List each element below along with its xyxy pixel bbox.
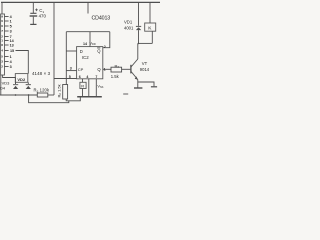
svg-text:4: 4 — [1, 49, 3, 53]
wire pin2 Qbar link — [103, 32, 110, 48]
svg-text:5: 5 — [1, 55, 3, 59]
svg-text:4: 4 — [86, 75, 88, 79]
transistor VT base bar — [130, 65, 132, 74]
svg-text:VD1: VD1 — [124, 19, 133, 24]
svg-text:6: 6 — [1, 24, 3, 28]
svg-text:2: 2 — [104, 45, 106, 49]
svg-text:1: 1 — [10, 55, 12, 59]
svg-text:6: 6 — [79, 75, 81, 79]
wire R6 top vertical to net A — [65, 32, 67, 85]
svg-text:1: 1 — [10, 20, 12, 24]
wire ground bus y95 — [0, 94, 37, 96]
wire relay feed — [149, 2, 151, 23]
svg-text:5: 5 — [69, 75, 71, 79]
svg-text:VDD: VDD — [90, 41, 96, 46]
diode VD4 symbol — [13, 83, 18, 86]
wire relay bottom to junction — [151, 31, 153, 43]
svg-text:9: 9 — [1, 15, 3, 19]
svg-text:R7: R7 — [115, 63, 120, 69]
wire left edge down — [0, 75, 2, 95]
svg-text:2: 2 — [1, 65, 3, 69]
svg-text:1: 1 — [1, 39, 3, 43]
svg-text:0: 0 — [1, 19, 3, 23]
wire emitter vertical to ground — [137, 80, 139, 88]
wire Q pin1 to R7 — [103, 68, 111, 70]
IC2 box CD4013 — [77, 47, 103, 79]
svg-text:4: 4 — [10, 60, 13, 64]
svg-text:R6 1.5k: R6 1.5k — [57, 84, 63, 97]
resistor R6 box vertical — [63, 85, 68, 100]
junction dot collector — [138, 43, 140, 45]
svg-text:4148 × 3: 4148 × 3 — [32, 71, 51, 76]
wire bottom rail — [29, 95, 69, 103]
left IC pin stubs — [5, 16, 9, 18]
ground dash lower — [123, 93, 128, 95]
svg-text:VSS: VSS — [97, 84, 103, 89]
svg-text:9014: 9014 — [140, 67, 150, 72]
left IC inside pin digits — [1, 15, 3, 69]
svg-text:3: 3 — [1, 60, 3, 64]
wire pin5 horizontal from x54 — [54, 78, 77, 80]
wire x54 vertical from rail to R5 wire — [53, 2, 55, 95]
wire left IC top lead — [1, 2, 3, 14]
svg-text:R: R — [81, 84, 84, 89]
wire pin14 VDD drop — [89, 32, 91, 47]
wire pin7 VSS to bus — [95, 79, 97, 97]
svg-text:D4: D4 — [0, 86, 6, 91]
svg-text:4: 4 — [10, 15, 13, 19]
left IC pin numbers — [10, 15, 15, 69]
svg-text:CP: CP — [78, 67, 84, 72]
svg-text:3: 3 — [10, 30, 12, 34]
svg-text:3: 3 — [70, 66, 72, 70]
wire net A horizontal — [66, 31, 110, 33]
diode VD5 symbol — [26, 83, 31, 86]
wire pin15 to VD2 box — [16, 51, 29, 74]
svg-text:13: 13 — [10, 44, 14, 48]
ground bar under IC2 — [77, 96, 102, 98]
svg-text:R5 120k: R5 120k — [34, 88, 50, 94]
svg-text:14: 14 — [83, 42, 87, 46]
wire R box to bus — [82, 89, 84, 97]
svg-text:7: 7 — [1, 29, 3, 33]
diode VD1 symbol — [136, 25, 141, 28]
svg-text:1.5k: 1.5k — [111, 74, 120, 79]
plus sign C1 — [35, 8, 38, 11]
transistor VT collector — [131, 59, 138, 67]
diode VD5 lead — [27, 82, 29, 84]
transistor emitter arrow — [135, 76, 138, 79]
wire D branch — [66, 50, 76, 52]
resistor R7 box — [111, 67, 122, 72]
diode VD1 top lead — [138, 2, 140, 26]
svg-text:Q: Q — [97, 48, 101, 53]
capacitor C1 bottom lead and terminal — [32, 17, 34, 25]
wire CP branch pin3 — [66, 70, 76, 72]
svg-text:K: K — [148, 26, 152, 32]
svg-text:Q: Q — [97, 67, 101, 72]
svg-text:5: 5 — [10, 25, 12, 29]
wire junction horizontal — [139, 42, 153, 44]
wire emitter branch to terminal — [138, 82, 154, 86]
junction dot VD4 — [15, 94, 17, 96]
svg-text:14: 14 — [10, 39, 15, 43]
svg-text:VT: VT — [142, 61, 148, 66]
svg-text:7: 7 — [95, 75, 97, 79]
wire vdd stub under rail — [87, 2, 89, 13]
box VD2 — [15, 74, 27, 83]
resistor R5 box — [37, 93, 48, 97]
diode VD1 bottom lead — [138, 30, 140, 43]
ground bar at emitter — [134, 87, 142, 89]
svg-text:15: 15 — [10, 49, 14, 53]
svg-text:IC2: IC2 — [82, 55, 89, 60]
svg-text:470: 470 — [39, 14, 47, 19]
svg-text:D: D — [80, 49, 83, 54]
capacitor C1 lead from rail — [32, 2, 34, 13]
wire R7 to base — [122, 68, 131, 70]
svg-text:1: 1 — [104, 67, 106, 71]
svg-text:CD4013: CD4013 — [92, 16, 111, 22]
wire collector vertical — [137, 43, 139, 59]
diode VD4 lead — [15, 82, 17, 84]
wire R6 bottom link — [66, 97, 80, 101]
svg-text:4001: 4001 — [124, 25, 134, 30]
transistor VT emitter — [131, 71, 138, 79]
left IC box U1 — [1, 14, 5, 75]
svg-text:8: 8 — [1, 43, 3, 47]
junction dot VD5 — [28, 94, 30, 96]
IC2 R box below — [80, 82, 86, 88]
relay K box — [145, 23, 156, 31]
wire R box stub — [82, 79, 84, 83]
wire top power rail — [1, 1, 160, 3]
wire pin4 to bus — [88, 79, 90, 97]
svg-text:VD2: VD2 — [17, 77, 26, 82]
capacitor C1 plates — [30, 12, 36, 14]
terminal bar right — [151, 86, 157, 88]
wire left IC bottom pin to VD3 — [3, 75, 16, 84]
svg-text:3: 3 — [10, 65, 12, 69]
